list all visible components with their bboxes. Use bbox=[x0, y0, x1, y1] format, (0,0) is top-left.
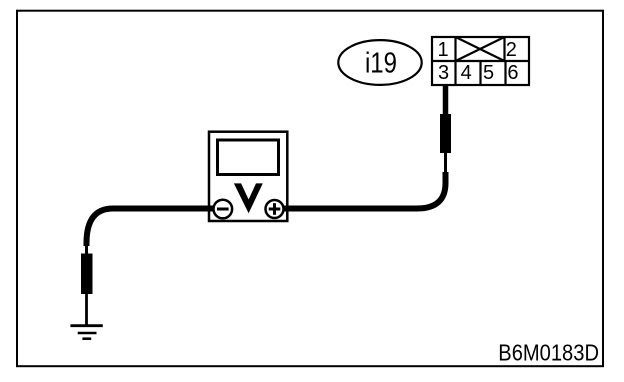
connector i19 pin grid bbox=[432, 37, 529, 85]
pin 2 bbox=[505, 37, 517, 61]
negative probe bbox=[214, 200, 233, 219]
wire terminal bar to ground bbox=[85, 294, 88, 325]
wire to voltmeter positive probe bbox=[284, 172, 446, 209]
wire stub at negative probe bbox=[208, 206, 216, 212]
svg-text:3: 3 bbox=[438, 62, 449, 84]
wire stub at positive probe bbox=[280, 206, 289, 212]
V meter symbol bbox=[234, 183, 263, 213]
wire connector pin 3 to terminal bar bbox=[443, 85, 449, 116]
pin row divider bbox=[432, 60, 529, 62]
pin 4 bbox=[461, 61, 481, 85]
crossed empty cell bbox=[456, 37, 505, 61]
positive probe bbox=[266, 200, 284, 218]
voltmeter body bbox=[209, 132, 287, 221]
svg-text:B6M0183D: B6M0183D bbox=[498, 339, 599, 366]
svg-text:1: 1 bbox=[437, 39, 448, 61]
voltmeter bbox=[208, 132, 289, 221]
wire voltmeter negative probe to terminal bar bbox=[87, 209, 215, 247]
svg-text:6: 6 bbox=[507, 62, 518, 84]
pin 3 bbox=[438, 61, 456, 85]
pin 1 bbox=[437, 37, 455, 61]
terminal bar on right wire bbox=[440, 114, 451, 153]
svg-text:5: 5 bbox=[483, 62, 494, 84]
wire terminal bar lead left bbox=[85, 244, 88, 255]
pin 5 bbox=[483, 61, 505, 85]
svg-text:2: 2 bbox=[506, 39, 517, 61]
wire terminal bar lead bbox=[444, 152, 447, 174]
ground bbox=[70, 326, 102, 339]
voltmeter display bbox=[218, 140, 279, 175]
svg-text:4: 4 bbox=[461, 62, 472, 84]
connector label i19 bbox=[338, 40, 421, 85]
terminal bar on left wire bbox=[81, 254, 93, 295]
svg-text:i19: i19 bbox=[365, 46, 397, 79]
